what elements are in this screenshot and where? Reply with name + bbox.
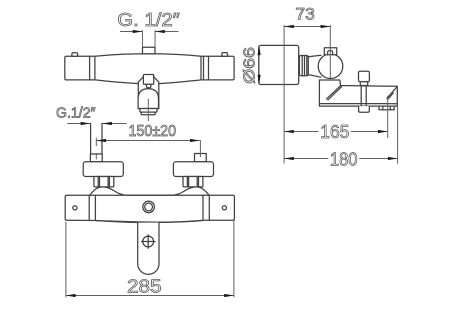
right band line 2: [208, 195, 210, 220]
dim G.1/2 top : extension left: [141, 30, 143, 47]
dim 73 : arrow right: [321, 25, 331, 28]
spout slab outline: [319, 80, 397, 106]
left union centre tick 2: [95, 153, 97, 160]
dim G.1/2 top : line left: [120, 31, 142, 33]
dim G.1/2 left : line left: [67, 123, 90, 125]
svg-text:73: 73: [295, 4, 315, 23]
neck cone bottom: [308, 75, 321, 78]
body bottom centre curve: [95, 221, 203, 223]
right nut: [183, 177, 203, 187]
dim 180 : extension: [397, 106, 399, 164]
dim 180 : arrow left: [284, 157, 294, 160]
diverter stem line 2: [365, 86, 367, 107]
dim dia66 : arrow down: [258, 75, 261, 85]
phillips cross h: [142, 241, 155, 243]
right cap pin: [222, 53, 228, 57]
dim dia66 : arrow up: [258, 45, 261, 55]
dim dia66 : line: [258, 45, 260, 84]
dim 165 : arrow right: [378, 130, 388, 133]
right union stub: [195, 154, 207, 162]
right cap ring line 3: [208, 56, 210, 80]
dim 150+-20 : arrow left: [96, 139, 106, 142]
left band line 2: [94, 195, 96, 220]
dim 165 : line right: [351, 131, 388, 133]
right cap ring line: [200, 56, 202, 80]
spout left chamfer diagonal 2: [328, 87, 342, 100]
dim 285 : line: [66, 295, 234, 297]
dim G.1/2 left : arrow right: [102, 122, 112, 125]
hanging tongue: [138, 223, 159, 275]
left screw hole: [73, 206, 77, 210]
knurl line 2: [304, 56, 306, 76]
diverter step 1: [140, 109, 157, 113]
diverter knob base: [360, 82, 367, 86]
dim 73 : left extension: [283, 25, 285, 164]
neck cone top: [308, 55, 321, 57]
diverter dome: [138, 89, 158, 109]
right escutcheon flange: [173, 162, 213, 177]
dim 180 : line left: [284, 158, 328, 160]
right screw hole: [222, 206, 226, 210]
bracket inner dome: [328, 50, 333, 54]
dim 285 : extension left: [65, 222, 67, 297]
knurled ring: [299, 56, 308, 76]
dim G.1/2 top : arrow left: [133, 30, 143, 33]
left nut facet lines: [97, 177, 99, 187]
dim 150+-20 : line: [96, 140, 199, 142]
diverter bracket: [138, 77, 159, 109]
diverter stem line 1: [360, 86, 362, 107]
outlet nozzle: [359, 106, 370, 112]
svg-text:G.1/2″: G.1/2″: [56, 105, 96, 121]
right union centre tick: [199, 140, 201, 157]
diverter step 2: [141, 112, 155, 115]
left union pipe left line: [90, 124, 92, 155]
centre hole outer: [143, 201, 155, 213]
left cap pin: [72, 53, 78, 56]
svg-text:150±20: 150±20: [129, 123, 177, 140]
spout end tab bottom: [379, 109, 394, 111]
diverter neck: [146, 84, 151, 87]
phillips screw: [143, 236, 154, 247]
dim G.1/2 top : arrow right: [155, 30, 165, 33]
dim G.1/2 top : line right: [155, 31, 178, 33]
knurl line 3: [306, 56, 308, 76]
left cap ring line 2: [94, 56, 96, 80]
spout right chamfer diagonal: [387, 87, 397, 99]
svg-text:Ø66: Ø66: [241, 47, 258, 84]
diverter knob side: [359, 71, 370, 82]
dim 165 : extension: [387, 96, 389, 138]
spout end tabs: [378, 106, 380, 110]
dim 285 : arrow left: [66, 294, 76, 297]
left band line: [88, 195, 90, 220]
dim 73 : line: [284, 26, 330, 28]
centreline vertical: [329, 25, 331, 79]
right band line: [202, 195, 204, 220]
right cap ring line 2: [203, 56, 205, 80]
svg-text:180: 180: [330, 150, 358, 170]
diverter knob: [143, 75, 153, 85]
spout bottom strip line: [319, 103, 397, 105]
dim 165 : line left: [284, 131, 318, 133]
top inlet stub: [143, 47, 156, 54]
dim 165 : arrow left: [284, 130, 294, 133]
left union stub: [90, 154, 102, 162]
right nut facet lines: [186, 177, 188, 187]
svg-text:285: 285: [127, 276, 162, 297]
left union centre tick: [95, 138, 97, 146]
svg-text:G. 1/2″: G. 1/2″: [117, 9, 180, 30]
diverter centerline: [147, 99, 149, 121]
knurl line 1: [301, 56, 303, 76]
dim G.1/2 top : extension right: [154, 30, 156, 47]
dim G.1/2 left : line right: [102, 123, 127, 125]
valve ball circle: [318, 54, 343, 79]
handle knob side: [259, 45, 299, 84]
left cap ring line: [89, 56, 91, 80]
spout right chamfer diagonal 2: [388, 93, 393, 99]
mixer body silhouette: [65, 54, 234, 84]
svg-text:165: 165: [320, 122, 349, 142]
top bracket: [324, 48, 336, 55]
bridge saddle curve: [90, 187, 209, 195]
centre hole inner: [145, 203, 153, 211]
left nut: [94, 177, 114, 187]
dim 180 : arrow right: [388, 157, 398, 160]
dim 285 : extension right: [233, 221, 235, 298]
spout left chamfer diagonal: [326, 86, 340, 99]
dim 150+-20 : arrow right: [190, 139, 200, 142]
phillips cross v: [147, 235, 149, 248]
left union pipe right line: [101, 124, 103, 155]
left escutcheon flange: [83, 162, 123, 177]
wall plate body: [65, 195, 234, 222]
dim 180 : line right: [359, 158, 397, 160]
dim 73 : arrow left: [284, 25, 294, 28]
dim G.1/2 left : arrow left: [81, 122, 91, 125]
dim 285 : arrow right: [224, 294, 234, 297]
